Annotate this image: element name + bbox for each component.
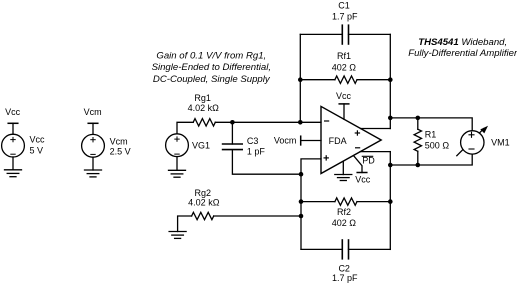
svg-text:Vcc: Vcc — [336, 91, 352, 101]
svg-text:DC-Coupled, Single Supply: DC-Coupled, Single Supply — [153, 74, 271, 85]
pin label: noninverting input plus — [324, 156, 328, 160]
pin label: inverting input minus — [325, 120, 329, 122]
node: output minus / R1 branch — [388, 163, 393, 168]
svg-text:1.7 pF: 1.7 pF — [332, 273, 358, 283]
svg-text:1.7 pF: 1.7 pF — [332, 11, 358, 21]
wire C3 bottom to left rail — [232, 150, 301, 175]
node: R1 top junction — [416, 116, 421, 121]
wire VG1 up to Rg1 — [177, 122, 193, 134]
wire node to C3 top — [231, 122, 233, 144]
svg-text:Fully-Differential Amplifier: Fully-Differential Amplifier — [408, 48, 517, 59]
value label 1 pF (C3) — [247, 147, 266, 157]
resistor Rf1 — [335, 76, 357, 83]
wire Rf1 left lead — [300, 79, 335, 81]
value label 1.7 pF (C1) — [332, 11, 358, 21]
node: C3 / left rail junction — [299, 172, 304, 177]
wire Rf2 left lead — [301, 201, 335, 203]
node: Rf2 right junction — [388, 199, 393, 204]
svg-text:500 Ω: 500 Ω — [425, 141, 450, 151]
wire Vocm to FDA — [301, 140, 321, 142]
node: Rg2 / left rail junction — [299, 214, 304, 219]
resistor R1 — [414, 129, 421, 151]
svg-text:THS4541 Wideband,: THS4541 Wideband, — [418, 37, 507, 48]
arrowhead of VM1 — [480, 126, 488, 134]
value label V1: Vcc 5 V — [30, 135, 46, 156]
ground stub (FDA bottom) — [342, 161, 344, 174]
value label 4.02 kΩ (Rg1) — [188, 103, 220, 113]
svg-text:Rg2: Rg2 — [195, 188, 212, 198]
svg-text:C3: C3 — [247, 136, 259, 146]
svg-text:Rf2: Rf2 — [337, 207, 351, 217]
power rail label Vcc (FDA top supply) — [336, 91, 352, 101]
wire FDA output plus — [361, 128, 391, 130]
resistor Rf2 — [335, 198, 357, 205]
pin label: output minus — [356, 147, 360, 149]
wire R1 bottom lead — [417, 151, 419, 165]
wire C1 to top loop right — [349, 33, 391, 35]
PD pin stub to Vcc — [354, 156, 362, 173]
node: output plus / R1 branch — [388, 116, 393, 121]
wire bottom loop left to C2 — [301, 248, 342, 250]
value label 402 Ω (Rf2) — [332, 218, 357, 228]
annotation: gain description text — [152, 51, 271, 85]
svg-text:4.02 kΩ: 4.02 kΩ — [188, 103, 220, 113]
resistor Rg2 — [192, 212, 214, 219]
value label 1.7 pF (C2) — [332, 273, 358, 283]
rail terminal bar Vcc on FDA top — [339, 104, 349, 119]
pin label: output plus — [355, 131, 359, 135]
svg-text:Vcc: Vcc — [5, 107, 21, 117]
label C1 — [338, 1, 350, 11]
wire Rf1 right lead — [357, 79, 390, 81]
feedback loop 1: right rail — [389, 34, 391, 128]
power rail label Vcc (top of V1) — [5, 107, 21, 117]
resistor Rg1 — [193, 119, 215, 126]
label Rg1 — [194, 93, 211, 103]
wire junction to FDA inverting input — [232, 121, 321, 123]
node: Rf1 right junction — [388, 77, 393, 82]
svg-text:Vcc: Vcc — [30, 135, 46, 145]
rail terminal bar Vcc (V1) — [8, 123, 18, 134]
voltage source VG1 — [166, 134, 189, 157]
terminal tick Vocm — [300, 136, 302, 145]
svg-text:Gain of 0.1 V/V from Rg1,: Gain of 0.1 V/V from Rg1, — [156, 51, 266, 62]
svg-text:402 Ω: 402 Ω — [332, 63, 357, 73]
label VG1 — [192, 141, 210, 151]
wire C2 to bottom loop right — [349, 248, 391, 250]
wire VG1 to ground — [176, 157, 178, 171]
label Vocm input — [274, 136, 297, 146]
svg-text:Vcm: Vcm — [84, 107, 102, 117]
voltmeter VM1 — [461, 131, 484, 154]
svg-text:Vcc: Vcc — [355, 175, 371, 185]
svg-text:VM1: VM1 — [491, 137, 510, 147]
ground (below VG1) — [169, 170, 186, 177]
svg-text:2.5 V: 2.5 V — [110, 147, 131, 157]
power rail label Vcc (PD pull-up) — [355, 175, 371, 185]
label Rg2 — [195, 188, 212, 198]
value label V2: Vcm 2.5 V — [110, 136, 131, 156]
value label 500 Ω (R1) — [425, 141, 450, 151]
value label 402 Ω (Rf1) — [332, 63, 357, 73]
wire output minus to VM1 bottom — [390, 154, 472, 165]
svg-text:1 pF: 1 pF — [247, 147, 266, 157]
wire R1 top lead — [417, 118, 419, 129]
ground (below FDA) — [335, 175, 352, 181]
capacitor C1 — [342, 25, 348, 44]
node: feedback tap on inverting input — [298, 120, 303, 125]
capacitor C3 — [223, 144, 243, 150]
overline of PD — [362, 155, 372, 157]
power rail label Vcm (top of V2) — [84, 107, 102, 117]
voltage source V2 (Vcm 2.5 V) — [82, 134, 105, 157]
svg-text:Rg1: Rg1 — [194, 93, 211, 103]
label FDA — [329, 136, 347, 146]
rail terminal bar Vcm (V2) — [88, 123, 98, 134]
node: R1 bottom junction — [416, 163, 421, 168]
label Rf1 — [337, 51, 351, 61]
feedback loop 2: right rail — [389, 152, 391, 250]
svg-text:VG1: VG1 — [192, 141, 210, 151]
node: Rf1 left junction — [298, 77, 303, 82]
wire Rg2 to left rail — [214, 215, 301, 217]
svg-text:R1: R1 — [425, 129, 437, 139]
svg-text:Vocm: Vocm — [274, 136, 297, 146]
wire V1 to ground — [12, 157, 14, 170]
label R1 — [425, 129, 437, 139]
annotation: THS4541 title text — [408, 37, 517, 59]
svg-text:Single-Ended to Differential,: Single-Ended to Differential, — [152, 62, 271, 73]
op-amp U1 THS4541 (FDA triangle) — [321, 106, 381, 173]
arrow shaft of VM1 — [457, 128, 484, 155]
svg-text:PD: PD — [362, 156, 375, 166]
ground (below V1) — [5, 170, 22, 177]
svg-text:C2: C2 — [338, 263, 350, 273]
svg-text:Rf1: Rf1 — [337, 51, 351, 61]
label VM1 — [491, 137, 510, 147]
voltage source V1 (Vcc 5 V) — [2, 134, 25, 157]
label C2 — [338, 263, 350, 273]
svg-text:FDA: FDA — [329, 136, 347, 146]
wire output plus to VM1 top — [390, 118, 472, 131]
wire top loop left to C1 — [300, 33, 342, 35]
label Rf2 — [337, 207, 351, 217]
left feedback rail (noninverting side) — [301, 159, 321, 250]
svg-text:4.02 kΩ: 4.02 kΩ — [188, 198, 220, 208]
value label 4.02 kΩ (Rg2) — [188, 198, 220, 208]
node: Rf2 left junction — [299, 199, 304, 204]
ground stub and wire to FDA noninverting input — [178, 216, 192, 232]
wire Rf2 right lead — [357, 201, 390, 203]
wire V2 to ground — [92, 157, 94, 170]
svg-text:Vcm: Vcm — [110, 136, 128, 146]
pin label PD with overline — [362, 156, 375, 166]
rail terminal bar Vcc on PD — [357, 172, 367, 174]
ground (below V2) — [85, 170, 102, 177]
svg-text:402 Ω: 402 Ω — [332, 218, 357, 228]
svg-text:C1: C1 — [338, 1, 350, 11]
label C3 — [247, 136, 259, 146]
svg-text:5 V: 5 V — [30, 146, 44, 156]
capacitor C2 — [342, 240, 348, 259]
feedback loop 1: left rail — [299, 34, 301, 122]
ground (Rg2 input) — [169, 232, 186, 239]
wire FDA output minus — [360, 151, 390, 153]
node: Rg1 / C3 junction — [230, 120, 235, 125]
wire Rg1 to inverting input node — [215, 121, 232, 123]
